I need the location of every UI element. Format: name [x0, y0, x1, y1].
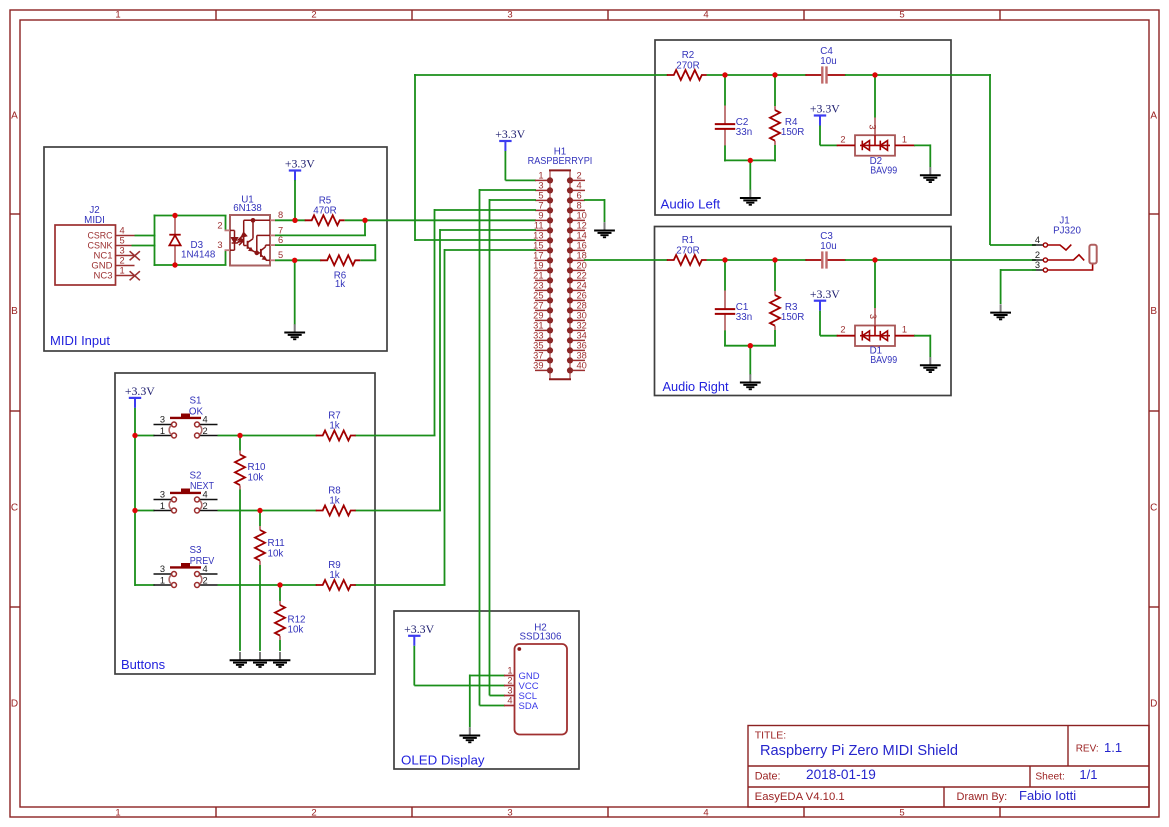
- switch S2 NEXT: [154, 489, 218, 513]
- svg-text:6: 6: [577, 191, 582, 201]
- resistor R4 150R: [774, 75, 776, 106]
- header H2 SSD1306: [504, 644, 567, 735]
- svg-text:12: 12: [577, 221, 587, 231]
- svg-text:2: 2: [311, 9, 316, 20]
- svg-text:TITLE:: TITLE:: [755, 730, 787, 742]
- resistor R9 1k: [316, 580, 356, 590]
- svg-text:6N138: 6N138: [233, 203, 262, 214]
- title block: [748, 726, 1149, 808]
- wire D1.1 to ground: [914, 335, 930, 337]
- svg-text:BAV99: BAV99: [870, 355, 897, 366]
- svg-text:5: 5: [538, 191, 543, 201]
- wire H1.11 to R8: [440, 229, 536, 231]
- svg-text:A: A: [11, 111, 18, 122]
- svg-text:34: 34: [577, 331, 587, 341]
- resistor R2 270R: [667, 70, 707, 80]
- wire rail to ground AR: [749, 346, 751, 375]
- svg-text:3: 3: [538, 181, 543, 191]
- switch S3 PREV: [154, 563, 218, 587]
- svg-text:4: 4: [120, 226, 125, 236]
- svg-text:B: B: [1150, 306, 1157, 317]
- wire H1.3 SDA vertical: [480, 189, 537, 191]
- wire R1 out rail: [707, 259, 807, 261]
- wire +3.3V to H1 pin1: [504, 151, 506, 180]
- wire H1.7 to R7: [435, 209, 537, 211]
- header H1 RASPBERRYPI: [533, 170, 587, 379]
- wire H1.15 to R9: [445, 249, 537, 251]
- wire R11 to ground: [259, 565, 261, 651]
- power +3.3V D1: [810, 289, 841, 311]
- svg-text:17: 17: [533, 251, 543, 261]
- resistor R11 10k: [259, 511, 261, 527]
- connector J2: [55, 225, 140, 285]
- svg-text:B: B: [11, 306, 18, 317]
- svg-text:4: 4: [703, 9, 708, 20]
- resistor R7 1k: [316, 431, 356, 441]
- wire diode loop bottom: [154, 264, 227, 266]
- svg-text:33n: 33n: [736, 127, 752, 138]
- svg-text:40: 40: [577, 361, 587, 371]
- svg-text:7: 7: [278, 225, 283, 235]
- svg-text:S1: S1: [190, 396, 202, 407]
- svg-text:Fabio Iotti: Fabio Iotti: [1019, 788, 1076, 803]
- svg-text:10: 10: [577, 211, 587, 221]
- wire diode loop top: [154, 215, 227, 217]
- svg-text:10k: 10k: [268, 548, 284, 559]
- wire U1.7: [275, 234, 366, 236]
- block Audio Left: [655, 40, 951, 215]
- svg-text:3: 3: [507, 808, 512, 819]
- svg-text:4: 4: [507, 696, 512, 706]
- svg-text:3: 3: [1035, 260, 1040, 270]
- svg-text:OLED Display: OLED Display: [401, 753, 485, 768]
- wire loop to U1 pin3: [225, 250, 227, 265]
- wire S1 out: [218, 435, 317, 437]
- ground R10: [230, 652, 251, 667]
- svg-text:4: 4: [703, 808, 708, 819]
- svg-text:Drawn By:: Drawn By:: [957, 791, 1008, 803]
- svg-text:2: 2: [507, 676, 512, 686]
- svg-text:1k: 1k: [335, 279, 345, 290]
- ground J1: [990, 304, 1011, 319]
- svg-text:33n: 33n: [736, 312, 752, 323]
- svg-text:24: 24: [577, 281, 587, 291]
- svg-text:3: 3: [507, 9, 512, 20]
- svg-text:D: D: [1150, 699, 1157, 710]
- svg-text:8: 8: [278, 210, 283, 220]
- svg-text:BAV99: BAV99: [870, 165, 897, 176]
- svg-text:2: 2: [1035, 250, 1040, 260]
- resistor R5 470R: [305, 215, 345, 225]
- svg-text:Sheet:: Sheet:: [1035, 772, 1064, 783]
- svg-text:1/1: 1/1: [1079, 767, 1097, 782]
- wire R5 out to H1 pin9: [345, 219, 536, 221]
- svg-text:150R: 150R: [781, 127, 804, 138]
- block MIDI Input: [44, 147, 387, 351]
- svg-text:Audio Right: Audio Right: [663, 379, 729, 394]
- wire node down to U1.7: [364, 220, 366, 235]
- svg-text:EasyEDA V4.10.1: EasyEDA V4.10.1: [755, 791, 845, 803]
- svg-text:21: 21: [533, 271, 543, 281]
- svg-text:470R: 470R: [313, 206, 336, 217]
- svg-text:38: 38: [577, 351, 587, 361]
- svg-text:10u: 10u: [820, 56, 836, 67]
- svg-text:30: 30: [577, 311, 587, 321]
- svg-text:26: 26: [577, 291, 587, 301]
- svg-text:150R: 150R: [781, 312, 804, 323]
- resistor R3 150R: [774, 260, 776, 291]
- svg-text:1N4148: 1N4148: [181, 250, 216, 261]
- svg-text:1: 1: [902, 134, 907, 144]
- power +3.3V OLED: [404, 624, 435, 646]
- wire C3 out to J1.2: [845, 259, 1036, 261]
- svg-text:C: C: [1150, 503, 1157, 514]
- svg-text:2: 2: [311, 808, 316, 819]
- wire CSNK J2.5 to diode loop: [132, 245, 156, 247]
- svg-text:OK: OK: [189, 406, 204, 417]
- ground Audio Left filter: [740, 190, 761, 205]
- svg-text:1k: 1k: [329, 421, 339, 432]
- capacitor C1 33n: [724, 260, 726, 291]
- svg-text:3: 3: [507, 686, 512, 696]
- diode D1 BAV99: [837, 326, 915, 347]
- svg-text:Buttons: Buttons: [121, 657, 166, 672]
- wire D2 pin3 drop: [874, 75, 876, 119]
- ground D2: [920, 167, 941, 182]
- wire C2-R4 bottom rail: [724, 159, 776, 161]
- svg-text:270R: 270R: [676, 60, 699, 71]
- wire U1.6 to R6 right: [275, 244, 375, 246]
- svg-text:28: 28: [577, 301, 587, 311]
- svg-text:4: 4: [1035, 235, 1040, 245]
- block Buttons: [115, 373, 375, 674]
- connector J1 PJ320: [1032, 235, 1097, 272]
- svg-text:S2: S2: [190, 471, 202, 482]
- svg-text:19: 19: [533, 261, 543, 271]
- diode D3 1N4148: [169, 216, 180, 266]
- svg-text:1.1: 1.1: [1104, 740, 1122, 755]
- wire +3.3V to R5 node: [294, 180, 296, 220]
- power +3.3V D2: [810, 104, 841, 126]
- svg-text:10k: 10k: [248, 472, 264, 483]
- svg-text:2018-01-19: 2018-01-19: [806, 767, 876, 782]
- svg-text:SDA: SDA: [519, 701, 539, 712]
- wire H1.5 SCL vertical: [490, 199, 537, 201]
- svg-text:2: 2: [120, 256, 125, 266]
- svg-text:25: 25: [533, 291, 543, 301]
- ground R12: [270, 652, 291, 667]
- svg-text:5: 5: [899, 9, 904, 20]
- svg-text:NEXT: NEXT: [190, 481, 214, 492]
- svg-text:35: 35: [533, 341, 543, 351]
- svg-text:22: 22: [577, 271, 587, 281]
- wire H2 GND to ground: [470, 675, 505, 677]
- block OLED Display: [394, 611, 579, 769]
- wire C1-R3 bottom rail: [724, 345, 776, 347]
- svg-text:31: 31: [533, 321, 543, 331]
- svg-text:32: 32: [577, 321, 587, 331]
- svg-text:5: 5: [899, 808, 904, 819]
- wire +3.3V to D1.2: [819, 311, 821, 336]
- svg-text:2: 2: [577, 171, 582, 181]
- svg-text:14: 14: [577, 231, 587, 241]
- svg-text:D: D: [11, 699, 18, 710]
- wire CSRC J2.4 to diode loop: [135, 235, 156, 237]
- svg-text:20: 20: [577, 261, 587, 271]
- svg-text:1k: 1k: [329, 570, 339, 581]
- svg-text:10u: 10u: [820, 241, 836, 252]
- capacitor C2 33n: [724, 75, 726, 106]
- power +3.3V H1: [495, 129, 526, 151]
- ground H1.6: [594, 222, 615, 237]
- capacitor C4 10u: [805, 66, 846, 83]
- wire +3.3V to H2 VCC: [413, 646, 415, 686]
- capacitor C3 10u: [805, 251, 846, 268]
- svg-text:MIDI Input: MIDI Input: [50, 333, 110, 348]
- svg-text:A: A: [1150, 111, 1157, 122]
- svg-text:36: 36: [577, 341, 587, 351]
- svg-text:C: C: [11, 503, 18, 514]
- wire U1.8 to node: [275, 219, 306, 221]
- svg-text:270R: 270R: [676, 245, 699, 256]
- block Audio Right: [655, 227, 952, 396]
- wire rail to ground AL: [749, 160, 751, 190]
- svg-text:37: 37: [533, 351, 543, 361]
- wire D2.1 to ground: [914, 144, 930, 146]
- resistor R1 270R: [667, 255, 707, 265]
- wire loop to U1 pin2: [225, 216, 227, 231]
- resistor R6 1k: [320, 255, 360, 265]
- wire R2 out rail: [707, 74, 807, 76]
- junction dots overlay: [172, 213, 177, 218]
- ground OLED: [459, 727, 480, 742]
- svg-text:1: 1: [538, 171, 543, 181]
- svg-text:REV:: REV:: [1076, 744, 1099, 755]
- svg-text:3: 3: [868, 124, 878, 129]
- wire J1.3 to ground: [1001, 269, 1036, 271]
- svg-text:16: 16: [577, 241, 587, 251]
- ground MIDI: [284, 324, 305, 339]
- wire H1.6 to ground: [584, 199, 605, 201]
- power +3.3V MIDI: [285, 159, 316, 181]
- wire S2 out: [218, 510, 317, 512]
- svg-text:2: 2: [217, 220, 222, 230]
- wire C4 out: [845, 74, 991, 76]
- svg-text:5: 5: [278, 250, 283, 260]
- svg-text:3: 3: [217, 240, 222, 250]
- svg-text:2: 2: [840, 325, 845, 335]
- svg-text:29: 29: [533, 311, 543, 321]
- wire U1.5 to R6 left: [275, 259, 321, 261]
- svg-text:1: 1: [507, 666, 512, 676]
- resistor R12 10k: [279, 585, 281, 602]
- svg-text:10k: 10k: [288, 624, 304, 635]
- svg-text:1: 1: [115, 808, 120, 819]
- svg-text:PJ320: PJ320: [1053, 226, 1081, 237]
- ground D1: [920, 357, 941, 372]
- wire +3.3V to D2.2: [819, 126, 821, 146]
- svg-text:MIDI: MIDI: [84, 215, 105, 226]
- diode D2 BAV99: [837, 135, 915, 156]
- svg-text:39: 39: [533, 361, 543, 371]
- resistor R8 1k: [316, 506, 356, 516]
- svg-text:1: 1: [115, 9, 120, 20]
- svg-text:33: 33: [533, 331, 543, 341]
- svg-text:1: 1: [120, 266, 125, 276]
- svg-text:1: 1: [902, 325, 907, 335]
- svg-text:2: 2: [840, 134, 845, 144]
- wire U1.5 node to ground: [294, 260, 296, 324]
- svg-text:3: 3: [120, 246, 125, 256]
- optocoupler U1 6N138: [217, 210, 283, 265]
- svg-text:SSD1306: SSD1306: [520, 631, 562, 642]
- svg-text:Raspberry Pi Zero MIDI Shield: Raspberry Pi Zero MIDI Shield: [760, 743, 958, 759]
- ground Audio Right filter: [740, 374, 761, 389]
- svg-text:6: 6: [278, 235, 283, 245]
- svg-text:Audio Left: Audio Left: [661, 197, 721, 212]
- resistor R10 10k: [239, 436, 241, 452]
- svg-text:8: 8: [577, 201, 582, 211]
- wire R10 to ground: [239, 490, 241, 651]
- svg-text:Date:: Date:: [755, 770, 781, 782]
- switch S1 OK: [154, 414, 218, 438]
- power +3.3V Buttons: [125, 386, 156, 408]
- wire R12 to ground: [279, 640, 281, 651]
- wire Audio Left to J1.4: [989, 74, 991, 245]
- svg-text:5: 5: [120, 236, 125, 246]
- svg-text:23: 23: [533, 281, 543, 291]
- svg-text:7: 7: [538, 201, 543, 211]
- svg-text:27: 27: [533, 301, 543, 311]
- svg-text:4: 4: [577, 181, 582, 191]
- svg-text:3: 3: [868, 314, 878, 319]
- wire D1 pin3 drop: [874, 260, 876, 309]
- wire H1.13 to Audio Left feed: [415, 239, 536, 241]
- wire diode loop left vertical: [154, 215, 156, 267]
- svg-text:RASPBERRYPI: RASPBERRYPI: [528, 156, 593, 167]
- svg-text:PREV: PREV: [190, 556, 215, 567]
- svg-text:1k: 1k: [329, 496, 339, 507]
- wire H1.18 to Audio Right R1: [584, 259, 668, 261]
- svg-text:S3: S3: [190, 545, 203, 556]
- svg-text:9: 9: [538, 211, 543, 221]
- ground R11: [250, 652, 271, 667]
- wire +3.3V rail buttons: [134, 408, 136, 586]
- wire S3 out: [218, 584, 317, 586]
- svg-text:NC3: NC3: [93, 271, 112, 282]
